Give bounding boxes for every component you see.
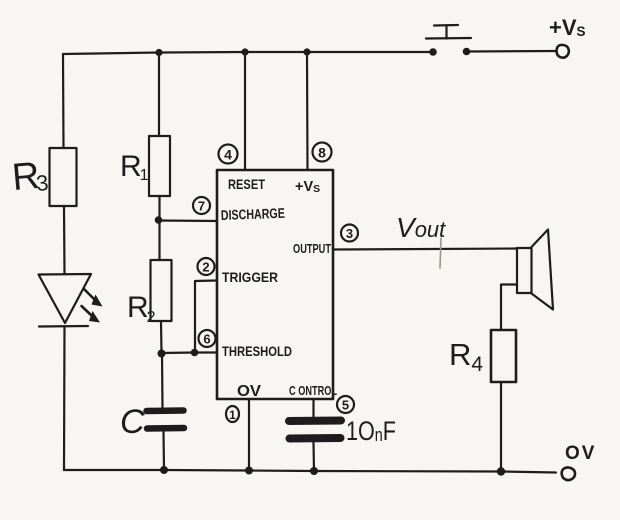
svg-text:8: 8 (318, 145, 326, 161)
terminal 0V open circle (562, 468, 575, 481)
pin 6 circle (199, 330, 216, 347)
node junction top rail at pin4 wire (241, 48, 248, 55)
wire R3 to LED (63, 206, 66, 274)
svg-text:1: 1 (229, 408, 236, 422)
svg-text:6: 6 (203, 332, 210, 347)
wire discharge (junction to pin 7) (159, 219, 218, 222)
resistor R1 (149, 136, 170, 196)
node junction discharge tap (155, 216, 163, 224)
wire speaker to R4 (501, 285, 517, 331)
speaker LS1 (517, 230, 553, 310)
wire R1 branch (top rail to R1) (158, 53, 160, 137)
wire pin 1 (0V) to bottom rail (248, 399, 250, 471)
pin 7 circle (193, 197, 210, 214)
wire R1 to R2 with discharge tap (158, 196, 160, 260)
stray pencil stroke under Vout (440, 238, 441, 268)
wire top rail left segment (+Vs rail from corner to switch) (63, 52, 431, 54)
svg-text:1OnF: 1OnF (346, 416, 396, 446)
node junction threshold at R2/C (158, 350, 166, 358)
pin 4 circle (219, 145, 238, 164)
svg-text:C ONTROL: C ONTROL (289, 384, 337, 398)
terminal +Vs open circle (557, 45, 569, 58)
wire 10nF to bottom rail (312, 443, 315, 472)
node junction 10nF at bottom rail (310, 467, 318, 475)
svg-text:4: 4 (224, 147, 232, 163)
pin 3 circle (341, 225, 358, 242)
svg-text:DISCHARGE: DISCHARGE (221, 205, 286, 223)
node junction trigger loop on threshold wire (191, 349, 199, 357)
wire trigger loop (pin 2 to threshold wire) (195, 281, 217, 353)
LED arrows (82, 289, 103, 323)
wire top rail right segment (switch to +Vs terminal) (470, 50, 556, 53)
LED D1 (triangle + bar) (39, 274, 92, 327)
svg-text:OUTPUT: OUTPUT (293, 241, 331, 256)
capacitor C plates (147, 411, 185, 429)
pin 1 circle (226, 406, 239, 422)
pin 5 circle (337, 396, 354, 413)
pushbutton switch S1 (426, 25, 471, 56)
svg-text:3: 3 (346, 226, 353, 241)
svg-text:C: C (120, 403, 145, 441)
wire LED to bottom rail (63, 327, 66, 471)
wire R2 to threshold junction (160, 321, 163, 353)
wire pin 4 to top rail (244, 52, 246, 170)
node junction R4 at bottom rail (497, 467, 505, 475)
node junction top rail at R1 (155, 49, 162, 56)
pin 2 circle (198, 258, 215, 275)
wire R4 to bottom rail (500, 382, 502, 472)
wire pin 5 (control) to 10nF (312, 399, 314, 417)
wire pin 8 to top rail (306, 52, 309, 170)
node junction top rail at pin8 wire (303, 48, 310, 55)
wire capacitor C to bottom rail (162, 432, 165, 471)
node junction pin1 at bottom rail (245, 467, 253, 475)
node junction C at bottom rail (160, 466, 168, 474)
resistor R2 (151, 260, 172, 321)
resistor R3 (50, 148, 77, 206)
svg-text:2: 2 (202, 260, 209, 275)
wire output pin 3 to speaker (333, 249, 517, 250)
wire threshold (junction to pin 6) (162, 351, 218, 354)
wire left branch vertical (top rail down to R3) (62, 54, 65, 148)
capacitor 10nF plates (289, 421, 341, 439)
wire threshold junction down to capacitor C (161, 354, 164, 408)
svg-text:5: 5 (342, 398, 349, 413)
IC U1 555 timer body (217, 170, 333, 399)
wire bottom rail (0V rail) (64, 470, 556, 473)
svg-text:RESET: RESET (228, 176, 265, 192)
svg-text:TRIGGER: TRIGGER (222, 269, 278, 285)
resistor R4 (491, 330, 516, 382)
svg-text:Vout: Vout (396, 212, 446, 243)
pin 8 circle (313, 143, 332, 162)
svg-text:OV: OV (565, 443, 596, 464)
svg-text:OV: OV (237, 383, 262, 400)
svg-text:7: 7 (198, 199, 205, 214)
svg-text:THRESHOLD: THRESHOLD (222, 343, 292, 359)
